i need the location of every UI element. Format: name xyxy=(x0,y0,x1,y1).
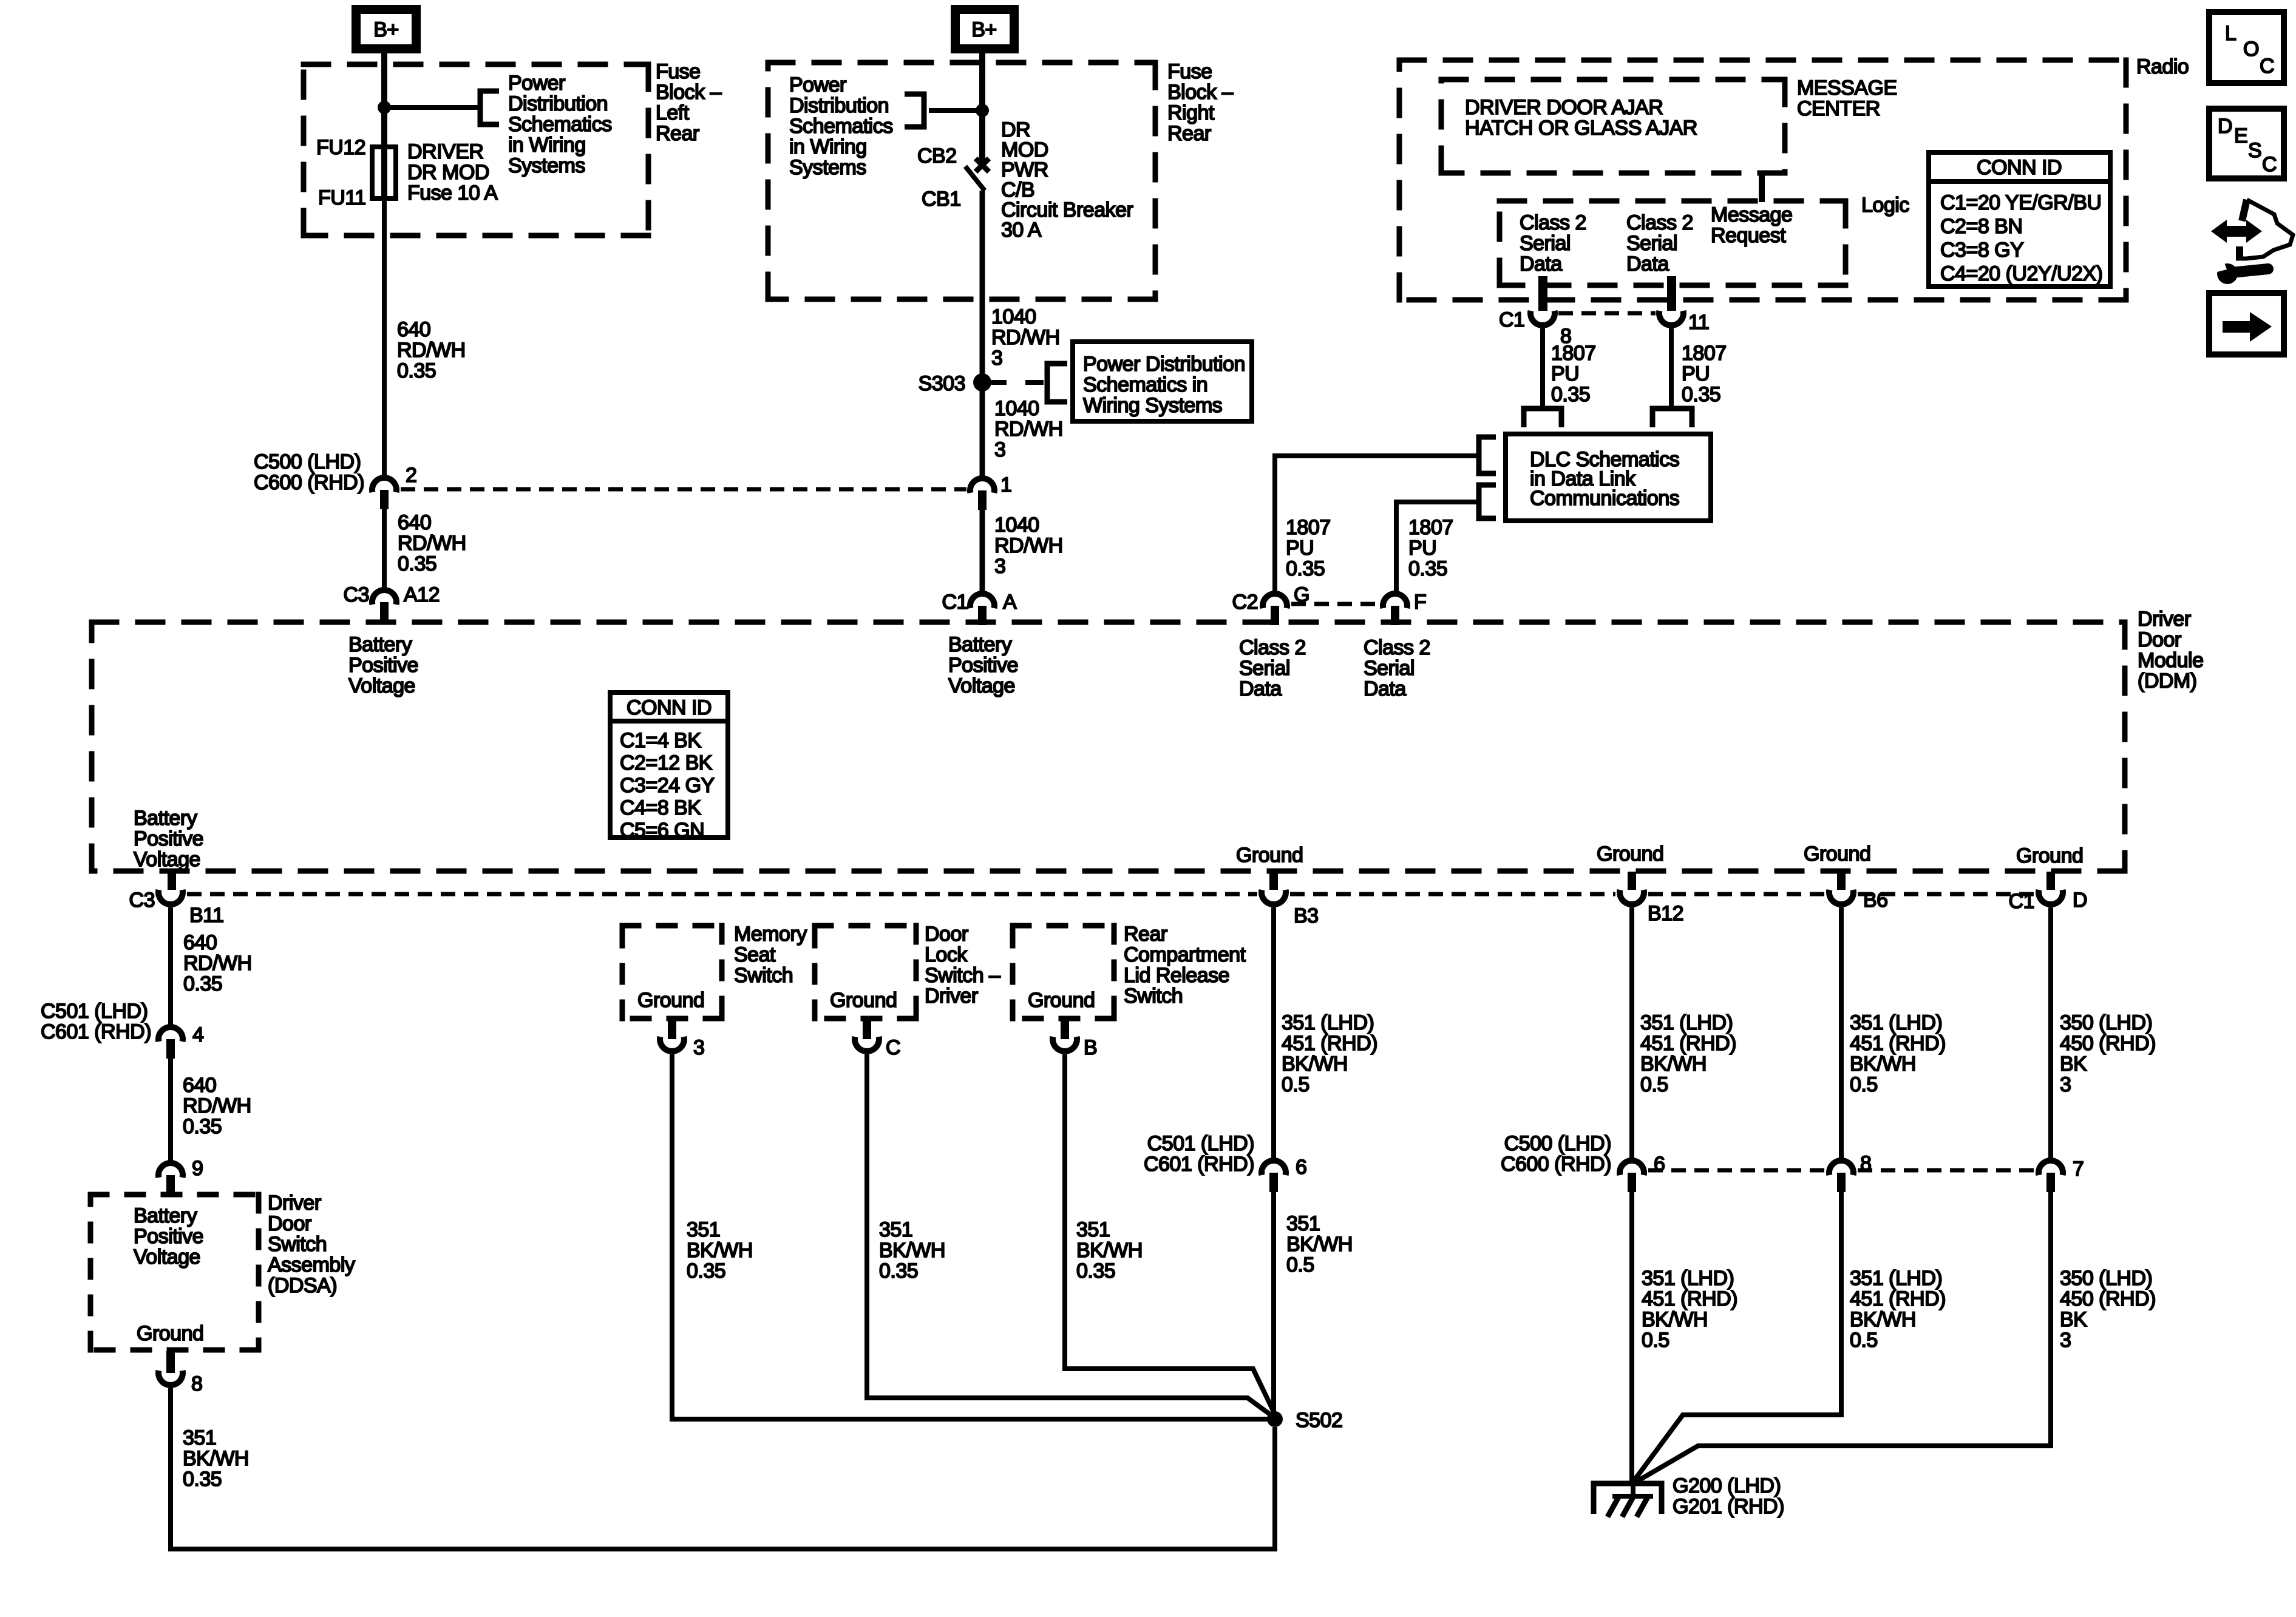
svg-text:HATCH OR GLASS AJAR: HATCH OR GLASS AJAR xyxy=(1465,117,1697,140)
wire pin 6 down to S502 xyxy=(1271,1192,1276,1414)
wire B6 down to pin 8 xyxy=(1839,907,1844,1161)
svg-text:Data: Data xyxy=(1520,253,1562,276)
fuse FU11/FU12 DRIVER DR MOD Fuse 10 A xyxy=(372,147,396,198)
connector C1 pin D from DDM xyxy=(2046,872,2055,890)
svg-text:Switch: Switch xyxy=(1124,985,1183,1008)
svg-text:0.35: 0.35 xyxy=(1682,383,1720,406)
svg-text:Serial: Serial xyxy=(1626,232,1677,255)
svg-text:451 (RHD): 451 (RHD) xyxy=(1282,1032,1377,1055)
svg-text:Power: Power xyxy=(508,72,565,95)
svg-text:Ground: Ground xyxy=(137,1322,203,1345)
svg-text:C600 (RHD): C600 (RHD) xyxy=(1501,1153,1611,1176)
svg-text:451 (RHD): 451 (RHD) xyxy=(1642,1287,1737,1310)
svg-text:Block –: Block – xyxy=(1167,81,1234,104)
svg-text:Switch: Switch xyxy=(734,964,793,987)
svg-text:Voltage: Voltage xyxy=(134,1246,200,1269)
svg-text:0.5: 0.5 xyxy=(1282,1073,1309,1096)
logic dashed box xyxy=(1497,198,1849,204)
rear compartment lid release switch dashed box xyxy=(1010,923,1117,929)
svg-text:640: 640 xyxy=(397,318,430,341)
svg-text:Block –: Block – xyxy=(656,81,722,104)
svg-text:0.35: 0.35 xyxy=(1286,557,1325,580)
svg-text:S: S xyxy=(2248,139,2261,162)
connector C1 pin A into DDM xyxy=(970,594,994,608)
svg-text:S502: S502 xyxy=(1296,1409,1342,1432)
door lock switch driver dashed box xyxy=(812,923,919,929)
svg-text:C600 (RHD): C600 (RHD) xyxy=(254,471,364,494)
svg-text:Memory: Memory xyxy=(734,923,807,946)
svg-text:0.35: 0.35 xyxy=(397,359,436,382)
svg-text:Schematics in: Schematics in xyxy=(1083,373,1207,396)
svg-text:11: 11 xyxy=(1688,311,1709,334)
svg-text:351 (LHD): 351 (LHD) xyxy=(1640,1011,1733,1034)
svg-text:351 (LHD): 351 (LHD) xyxy=(1850,1267,1942,1290)
svg-text:Voltage: Voltage xyxy=(348,674,415,697)
svg-text:351: 351 xyxy=(1286,1212,1320,1235)
svg-text:Data: Data xyxy=(1626,253,1669,276)
svg-text:E: E xyxy=(2234,124,2247,147)
svg-text:F: F xyxy=(1414,591,1426,614)
connector C1 pin 8 (radio) xyxy=(1530,311,1555,325)
svg-text:Driver: Driver xyxy=(2138,608,2191,631)
svg-text:640: 640 xyxy=(183,1074,216,1097)
svg-text:9: 9 xyxy=(192,1157,203,1180)
svg-text:Battery: Battery xyxy=(134,807,197,830)
svg-text:450 (RHD): 450 (RHD) xyxy=(2060,1032,2156,1055)
svg-text:G201 (RHD): G201 (RHD) xyxy=(1673,1495,1784,1518)
svg-text:Positive: Positive xyxy=(134,827,203,850)
off-page bracket (right fuse block) xyxy=(905,94,924,127)
svg-text:351: 351 xyxy=(879,1218,912,1241)
svg-text:BK: BK xyxy=(2060,1308,2087,1331)
bracket pin 11 to DLC box xyxy=(1652,408,1692,427)
dashed connector line B11 to B3 xyxy=(187,892,1257,897)
svg-text:Ground: Ground xyxy=(1236,844,1303,867)
svg-text:Switch –: Switch – xyxy=(925,964,1000,987)
svg-text:Wiring Systems: Wiring Systems xyxy=(1083,394,1222,417)
svg-text:Serial: Serial xyxy=(1364,657,1415,680)
svg-text:30 A: 30 A xyxy=(1001,219,1042,242)
svg-text:0.35: 0.35 xyxy=(1551,383,1590,406)
svg-text:0.35: 0.35 xyxy=(183,1115,222,1138)
CONN ID table (radio) xyxy=(1929,152,2110,286)
svg-text:C601 (RHD): C601 (RHD) xyxy=(1144,1153,1254,1176)
svg-text:Seat: Seat xyxy=(734,943,776,966)
svg-text:A12: A12 xyxy=(404,583,440,606)
svg-text:3: 3 xyxy=(2060,1073,2071,1096)
dashed connector line pin6 to pin8 xyxy=(1648,1168,1825,1173)
wire pin 11 down to DLC bracket xyxy=(1669,328,1674,407)
off-page bracket DLC lower xyxy=(1479,485,1496,518)
wire pin 7 down to ground G200 xyxy=(1634,1192,2051,1483)
wire DLC to F xyxy=(1396,502,1479,591)
connector pin C from door lock switch xyxy=(863,1019,871,1039)
wire DLC to C2/G xyxy=(1275,456,1479,591)
svg-text:Positive: Positive xyxy=(348,654,418,677)
dashed connector line G to F xyxy=(1291,602,1380,606)
svg-text:2: 2 xyxy=(406,464,416,487)
svg-text:A: A xyxy=(1003,591,1017,614)
wire pin 1 to C1/A xyxy=(980,510,985,591)
svg-text:Door: Door xyxy=(2138,628,2181,651)
connector C501/C601 pin 4 xyxy=(158,1027,183,1042)
svg-text:1807: 1807 xyxy=(1286,516,1331,539)
svg-text:Power: Power xyxy=(789,73,846,97)
svg-text:Systems: Systems xyxy=(789,156,866,179)
svg-text:in Wiring: in Wiring xyxy=(508,134,586,157)
wire junction to off-page bracket xyxy=(384,105,480,110)
svg-text:Message: Message xyxy=(1711,203,1792,226)
driver door module DDM dashed box xyxy=(89,620,2128,625)
svg-text:Data: Data xyxy=(1239,677,1282,700)
circuit breaker CB1/CB2 contact X mark xyxy=(976,158,989,172)
svg-text:Compartment: Compartment xyxy=(1124,943,1246,966)
svg-text:D: D xyxy=(2218,115,2232,138)
svg-text:C2: C2 xyxy=(1232,591,1258,614)
svg-text:351 (LHD): 351 (LHD) xyxy=(1850,1011,1942,1034)
svg-text:351: 351 xyxy=(687,1218,720,1241)
svg-text:8: 8 xyxy=(191,1372,202,1395)
svg-text:351: 351 xyxy=(183,1426,216,1449)
pin 8 stub from logic box xyxy=(1538,276,1547,311)
svg-text:C3: C3 xyxy=(344,583,369,606)
svg-text:C4=20 (U2Y/U2X): C4=20 (U2Y/U2X) xyxy=(1940,262,2102,285)
svg-text:RD/WH: RD/WH xyxy=(397,339,466,362)
connector pin 8 (B6 column) xyxy=(1829,1161,1853,1175)
svg-text:CONN ID: CONN ID xyxy=(1977,156,2062,179)
svg-text:BK/WH: BK/WH xyxy=(687,1239,753,1262)
svg-text:Rear: Rear xyxy=(656,122,699,145)
icon double arrow with wrench xyxy=(2211,220,2262,243)
svg-text:CENTER: CENTER xyxy=(1797,97,1880,120)
radio dashed box xyxy=(1397,58,2129,63)
svg-text:C: C xyxy=(2260,55,2274,78)
svg-text:(DDM): (DDM) xyxy=(2138,670,2197,693)
connector C500/C600 pin 6 xyxy=(1620,1161,1644,1175)
svg-text:Lid Release: Lid Release xyxy=(1124,964,1229,987)
svg-text:Rear: Rear xyxy=(1167,122,1211,145)
wire B3 down to C501 pin 6 xyxy=(1271,907,1276,1161)
splice S502 xyxy=(1267,1411,1283,1427)
off-page bracket DLC upper xyxy=(1479,437,1496,473)
svg-text:RD/WH: RD/WH xyxy=(991,326,1060,349)
svg-text:CB1: CB1 xyxy=(922,188,961,211)
svg-text:BK/WH: BK/WH xyxy=(1286,1233,1353,1256)
svg-text:BK/WH: BK/WH xyxy=(1642,1308,1708,1331)
node junction in fuse block left xyxy=(378,101,391,114)
svg-text:0.35: 0.35 xyxy=(183,1468,222,1491)
wire D down to pin 7 xyxy=(2048,907,2053,1161)
svg-text:Radio: Radio xyxy=(2136,55,2189,78)
wire S303 down to pin 1 xyxy=(980,382,985,476)
svg-text:MESSAGE: MESSAGE xyxy=(1797,76,1897,100)
svg-text:Class 2: Class 2 xyxy=(1239,636,1306,659)
splice S303 xyxy=(973,373,991,392)
svg-text:Fuse 10 A: Fuse 10 A xyxy=(407,181,498,205)
wire pin 8 down to DLC bracket xyxy=(1540,328,1545,407)
svg-text:FU11: FU11 xyxy=(318,186,366,209)
dashed connector line pin8 to pin11 xyxy=(1558,311,1656,316)
svg-text:O: O xyxy=(2243,38,2259,61)
svg-text:Communications: Communications xyxy=(1530,487,1679,510)
svg-text:6: 6 xyxy=(1296,1156,1306,1179)
svg-text:PU: PU xyxy=(1551,362,1579,385)
CONN ID table (DDM) xyxy=(610,693,728,838)
svg-text:3: 3 xyxy=(994,555,1005,578)
svg-text:0.5: 0.5 xyxy=(1642,1329,1669,1352)
svg-text:B3: B3 xyxy=(1294,904,1319,927)
box Power Distribution Schematics in Wiring Systems (S303) xyxy=(1073,342,1252,421)
icon box DESC xyxy=(2209,109,2284,178)
wire B+ down to fuse FU11/FU12 xyxy=(381,53,387,200)
svg-text:Rear: Rear xyxy=(1124,923,1167,946)
svg-text:Battery: Battery xyxy=(134,1204,197,1227)
svg-text:Assembly: Assembly xyxy=(268,1253,355,1276)
svg-text:Request: Request xyxy=(1711,224,1786,247)
svg-text:RD/WH: RD/WH xyxy=(994,534,1063,557)
wire B11 down to C501 xyxy=(168,907,173,1025)
svg-text:Class 2: Class 2 xyxy=(1364,636,1430,659)
svg-text:BK/WH: BK/WH xyxy=(879,1239,945,1262)
dashed connector line B6 to D xyxy=(1858,892,2034,897)
svg-text:0.5: 0.5 xyxy=(1850,1073,1878,1096)
svg-text:Battery: Battery xyxy=(948,633,1012,656)
wire breaker down to S303 xyxy=(980,191,985,382)
svg-text:Left: Left xyxy=(656,101,690,124)
svg-text:DRIVER DOOR AJAR: DRIVER DOOR AJAR xyxy=(1465,96,1663,119)
svg-text:C: C xyxy=(2262,153,2277,176)
svg-text:Ground: Ground xyxy=(1804,842,1870,866)
svg-text:Module: Module xyxy=(2138,649,2204,672)
driver door ajar hatch or glass ajar dashed box xyxy=(1439,77,1788,83)
connector C501/C601 pin 6 xyxy=(1262,1161,1286,1175)
svg-text:Systems: Systems xyxy=(508,154,585,177)
icon box right arrow xyxy=(2209,293,2284,354)
svg-text:CONN ID: CONN ID xyxy=(627,696,712,719)
svg-text:351 (LHD): 351 (LHD) xyxy=(1642,1267,1734,1290)
svg-text:C1: C1 xyxy=(942,591,968,614)
svg-text:Door: Door xyxy=(925,923,968,946)
connector C3 pin B11 from DDM xyxy=(168,872,176,890)
svg-text:BK/WH: BK/WH xyxy=(1850,1308,1916,1331)
svg-text:RD/WH: RD/WH xyxy=(398,532,466,555)
svg-text:Door: Door xyxy=(268,1212,311,1235)
svg-text:7: 7 xyxy=(2073,1158,2084,1181)
wire B12 down to C500 pin 6 xyxy=(1629,907,1634,1161)
svg-text:RD/WH: RD/WH xyxy=(183,1094,251,1117)
svg-text:BK/WH: BK/WH xyxy=(1282,1053,1348,1076)
svg-text:PU: PU xyxy=(1408,537,1436,560)
svg-text:Serial: Serial xyxy=(1239,657,1290,680)
svg-text:0.35: 0.35 xyxy=(398,552,436,575)
svg-text:0.5: 0.5 xyxy=(1850,1329,1878,1352)
node junction in fuse block right xyxy=(976,104,989,117)
svg-text:350 (LHD): 350 (LHD) xyxy=(2060,1267,2152,1290)
svg-text:0.35: 0.35 xyxy=(879,1259,918,1283)
svg-text:351: 351 xyxy=(1076,1218,1110,1241)
svg-text:640: 640 xyxy=(183,931,217,954)
svg-text:B11: B11 xyxy=(189,904,223,927)
svg-text:1: 1 xyxy=(1000,473,1011,497)
wire pin 8 down to ground G200 xyxy=(1634,1192,1841,1481)
svg-text:BK/WH: BK/WH xyxy=(1850,1053,1916,1076)
svg-text:BK/WH: BK/WH xyxy=(183,1447,249,1470)
wire DDSA pin 8 to S502 xyxy=(171,1388,1275,1549)
svg-text:1040: 1040 xyxy=(994,514,1039,537)
svg-text:DR MOD: DR MOD xyxy=(407,161,489,184)
dashed connector line pin8 to pin7 xyxy=(1858,1168,2034,1173)
svg-text:Ground: Ground xyxy=(637,989,704,1012)
svg-text:C1=4 BK: C1=4 BK xyxy=(620,729,701,752)
svg-text:C3: C3 xyxy=(129,889,155,912)
pin 11 stub from logic box xyxy=(1667,276,1676,311)
svg-text:C4=8 BK: C4=8 BK xyxy=(620,796,701,819)
svg-text:0.5: 0.5 xyxy=(1640,1073,1668,1096)
svg-text:Fuse: Fuse xyxy=(1167,60,1212,83)
svg-text:Ground: Ground xyxy=(2016,844,2083,867)
power symbol B+ (right) xyxy=(956,10,1014,49)
svg-text:Logic: Logic xyxy=(1861,194,1909,217)
connector pin 3 from memory seat switch xyxy=(668,1019,676,1039)
svg-text:Voltage: Voltage xyxy=(134,848,200,871)
dashed connector line B12 to B6 xyxy=(1648,892,1825,897)
svg-text:Serial: Serial xyxy=(1520,232,1571,255)
svg-text:3: 3 xyxy=(693,1036,704,1059)
DLC Schematics box xyxy=(1506,434,1711,521)
svg-text:C2=12 BK: C2=12 BK xyxy=(620,751,713,775)
svg-text:in Wiring: in Wiring xyxy=(789,135,867,158)
svg-text:351 (LHD): 351 (LHD) xyxy=(1282,1011,1374,1034)
svg-text:Right: Right xyxy=(1167,101,1215,124)
svg-text:RD/WH: RD/WH xyxy=(183,952,252,975)
svg-text:Data: Data xyxy=(1364,677,1406,700)
svg-text:1807: 1807 xyxy=(1682,342,1727,365)
connector pin B6 from DDM xyxy=(1837,872,1846,890)
svg-text:C500 (LHD): C500 (LHD) xyxy=(254,450,361,473)
wire pin B to S502 xyxy=(1065,1054,1275,1414)
svg-text:451 (RHD): 451 (RHD) xyxy=(1850,1287,1946,1310)
svg-text:0.35: 0.35 xyxy=(183,972,222,995)
connector C3 pin A12 into DDM xyxy=(372,590,396,605)
svg-text:Driver: Driver xyxy=(268,1192,321,1215)
connector pin F into DDM xyxy=(1383,594,1407,608)
svg-text:Distribution: Distribution xyxy=(789,94,889,117)
svg-text:Lock: Lock xyxy=(925,943,968,966)
svg-text:Battery: Battery xyxy=(348,633,412,656)
svg-text:S303: S303 xyxy=(919,372,965,395)
svg-text:C1=20 YE/GR/BU: C1=20 YE/GR/BU xyxy=(1940,191,2101,214)
svg-text:(DDSA): (DDSA) xyxy=(268,1274,337,1297)
svg-text:B: B xyxy=(1084,1036,1097,1059)
svg-text:Schematics: Schematics xyxy=(508,113,612,136)
wire junction to off-page bracket (right fuse block) xyxy=(929,108,982,113)
svg-text:C601 (RHD): C601 (RHD) xyxy=(41,1020,151,1043)
svg-text:PU: PU xyxy=(1682,362,1710,385)
svg-text:0.35: 0.35 xyxy=(687,1259,725,1283)
power symbol B+ (left) xyxy=(356,10,416,49)
svg-text:Ground: Ground xyxy=(1597,842,1663,866)
svg-text:451 (RHD): 451 (RHD) xyxy=(1640,1032,1736,1055)
svg-text:Voltage: Voltage xyxy=(948,674,1015,697)
wire B+ down to breaker CB xyxy=(979,53,985,161)
wire pin 3 to S502 xyxy=(672,1054,1268,1419)
svg-text:640: 640 xyxy=(398,511,431,534)
driver door switch assembly DDSA dashed box xyxy=(88,1192,262,1198)
svg-text:BK/WH: BK/WH xyxy=(1640,1053,1707,1076)
svg-text:D: D xyxy=(2073,889,2087,912)
svg-text:4: 4 xyxy=(192,1023,203,1046)
svg-text:C2=8 BN: C2=8 BN xyxy=(1940,215,2022,238)
svg-text:C501 (LHD): C501 (LHD) xyxy=(1147,1132,1254,1155)
svg-text:C3=8 GY: C3=8 GY xyxy=(1940,239,2023,262)
connector pin B from rear compartment switch xyxy=(1061,1019,1069,1039)
wire pin 6 down to ground G200 xyxy=(1629,1192,1634,1485)
svg-text:C5=6 GN: C5=6 GN xyxy=(620,819,704,842)
dashed connector line pin2 to pin1 xyxy=(401,487,966,492)
svg-text:3: 3 xyxy=(994,438,1005,461)
svg-text:Positive: Positive xyxy=(948,654,1018,677)
svg-text:350 (LHD): 350 (LHD) xyxy=(2060,1011,2152,1034)
circuit breaker blade xyxy=(965,166,985,191)
svg-text:1807: 1807 xyxy=(1551,342,1596,365)
connector pin B12 from DDM xyxy=(1628,872,1636,890)
connector pin B3 from DDM xyxy=(1269,872,1278,890)
svg-text:Driver: Driver xyxy=(925,985,978,1008)
svg-text:Class 2: Class 2 xyxy=(1626,211,1693,234)
svg-text:C3=24 GY: C3=24 GY xyxy=(620,774,715,797)
svg-text:Switch: Switch xyxy=(268,1233,327,1256)
svg-text:C: C xyxy=(886,1036,900,1059)
fuse block left rear dashed box xyxy=(301,62,651,67)
connector pin 8 from DDSA xyxy=(166,1351,175,1373)
connector pin 9 into DDSA xyxy=(158,1163,183,1178)
ground G200/G201 symbol xyxy=(1594,1483,1662,1514)
svg-text:Class 2: Class 2 xyxy=(1520,211,1586,234)
svg-text:DRIVER: DRIVER xyxy=(407,140,483,163)
connector C500/C600 pin 2 xyxy=(372,478,396,492)
wire pin C to S502 xyxy=(867,1054,1275,1418)
bracket pin 8 to DLC box xyxy=(1524,408,1561,427)
connector pin 1 xyxy=(970,478,994,493)
svg-text:0.35: 0.35 xyxy=(1408,557,1447,580)
svg-text:B+: B+ xyxy=(373,18,399,41)
svg-text:FU12: FU12 xyxy=(316,136,365,159)
svg-text:B+: B+ xyxy=(971,18,997,41)
svg-text:3: 3 xyxy=(991,347,1002,370)
svg-text:PU: PU xyxy=(1286,537,1314,560)
svg-text:L: L xyxy=(2225,22,2236,45)
svg-text:C500 (LHD): C500 (LHD) xyxy=(1504,1132,1611,1155)
wire pin 4 down to pin 9 xyxy=(168,1059,173,1161)
svg-text:Ground: Ground xyxy=(1028,989,1095,1012)
svg-text:0.5: 0.5 xyxy=(1286,1253,1314,1276)
wire S303 to off-page bracket xyxy=(991,380,1007,385)
off-page bracket (left fuse block) xyxy=(480,91,499,124)
svg-text:Power Distribution: Power Distribution xyxy=(1083,353,1245,376)
memory seat switch dashed box xyxy=(620,923,725,929)
svg-text:0.35: 0.35 xyxy=(1076,1259,1115,1283)
wire ajar box to logic box xyxy=(1759,173,1765,202)
svg-text:1040: 1040 xyxy=(994,397,1039,420)
svg-text:Ground: Ground xyxy=(830,989,897,1012)
svg-text:BK/WH: BK/WH xyxy=(1076,1239,1143,1262)
svg-text:451 (RHD): 451 (RHD) xyxy=(1850,1032,1946,1055)
svg-text:RD/WH: RD/WH xyxy=(994,418,1063,441)
svg-text:3: 3 xyxy=(2060,1329,2071,1352)
svg-text:B12: B12 xyxy=(1648,902,1683,925)
svg-text:1807: 1807 xyxy=(1408,516,1453,539)
svg-text:CB2: CB2 xyxy=(917,144,957,168)
